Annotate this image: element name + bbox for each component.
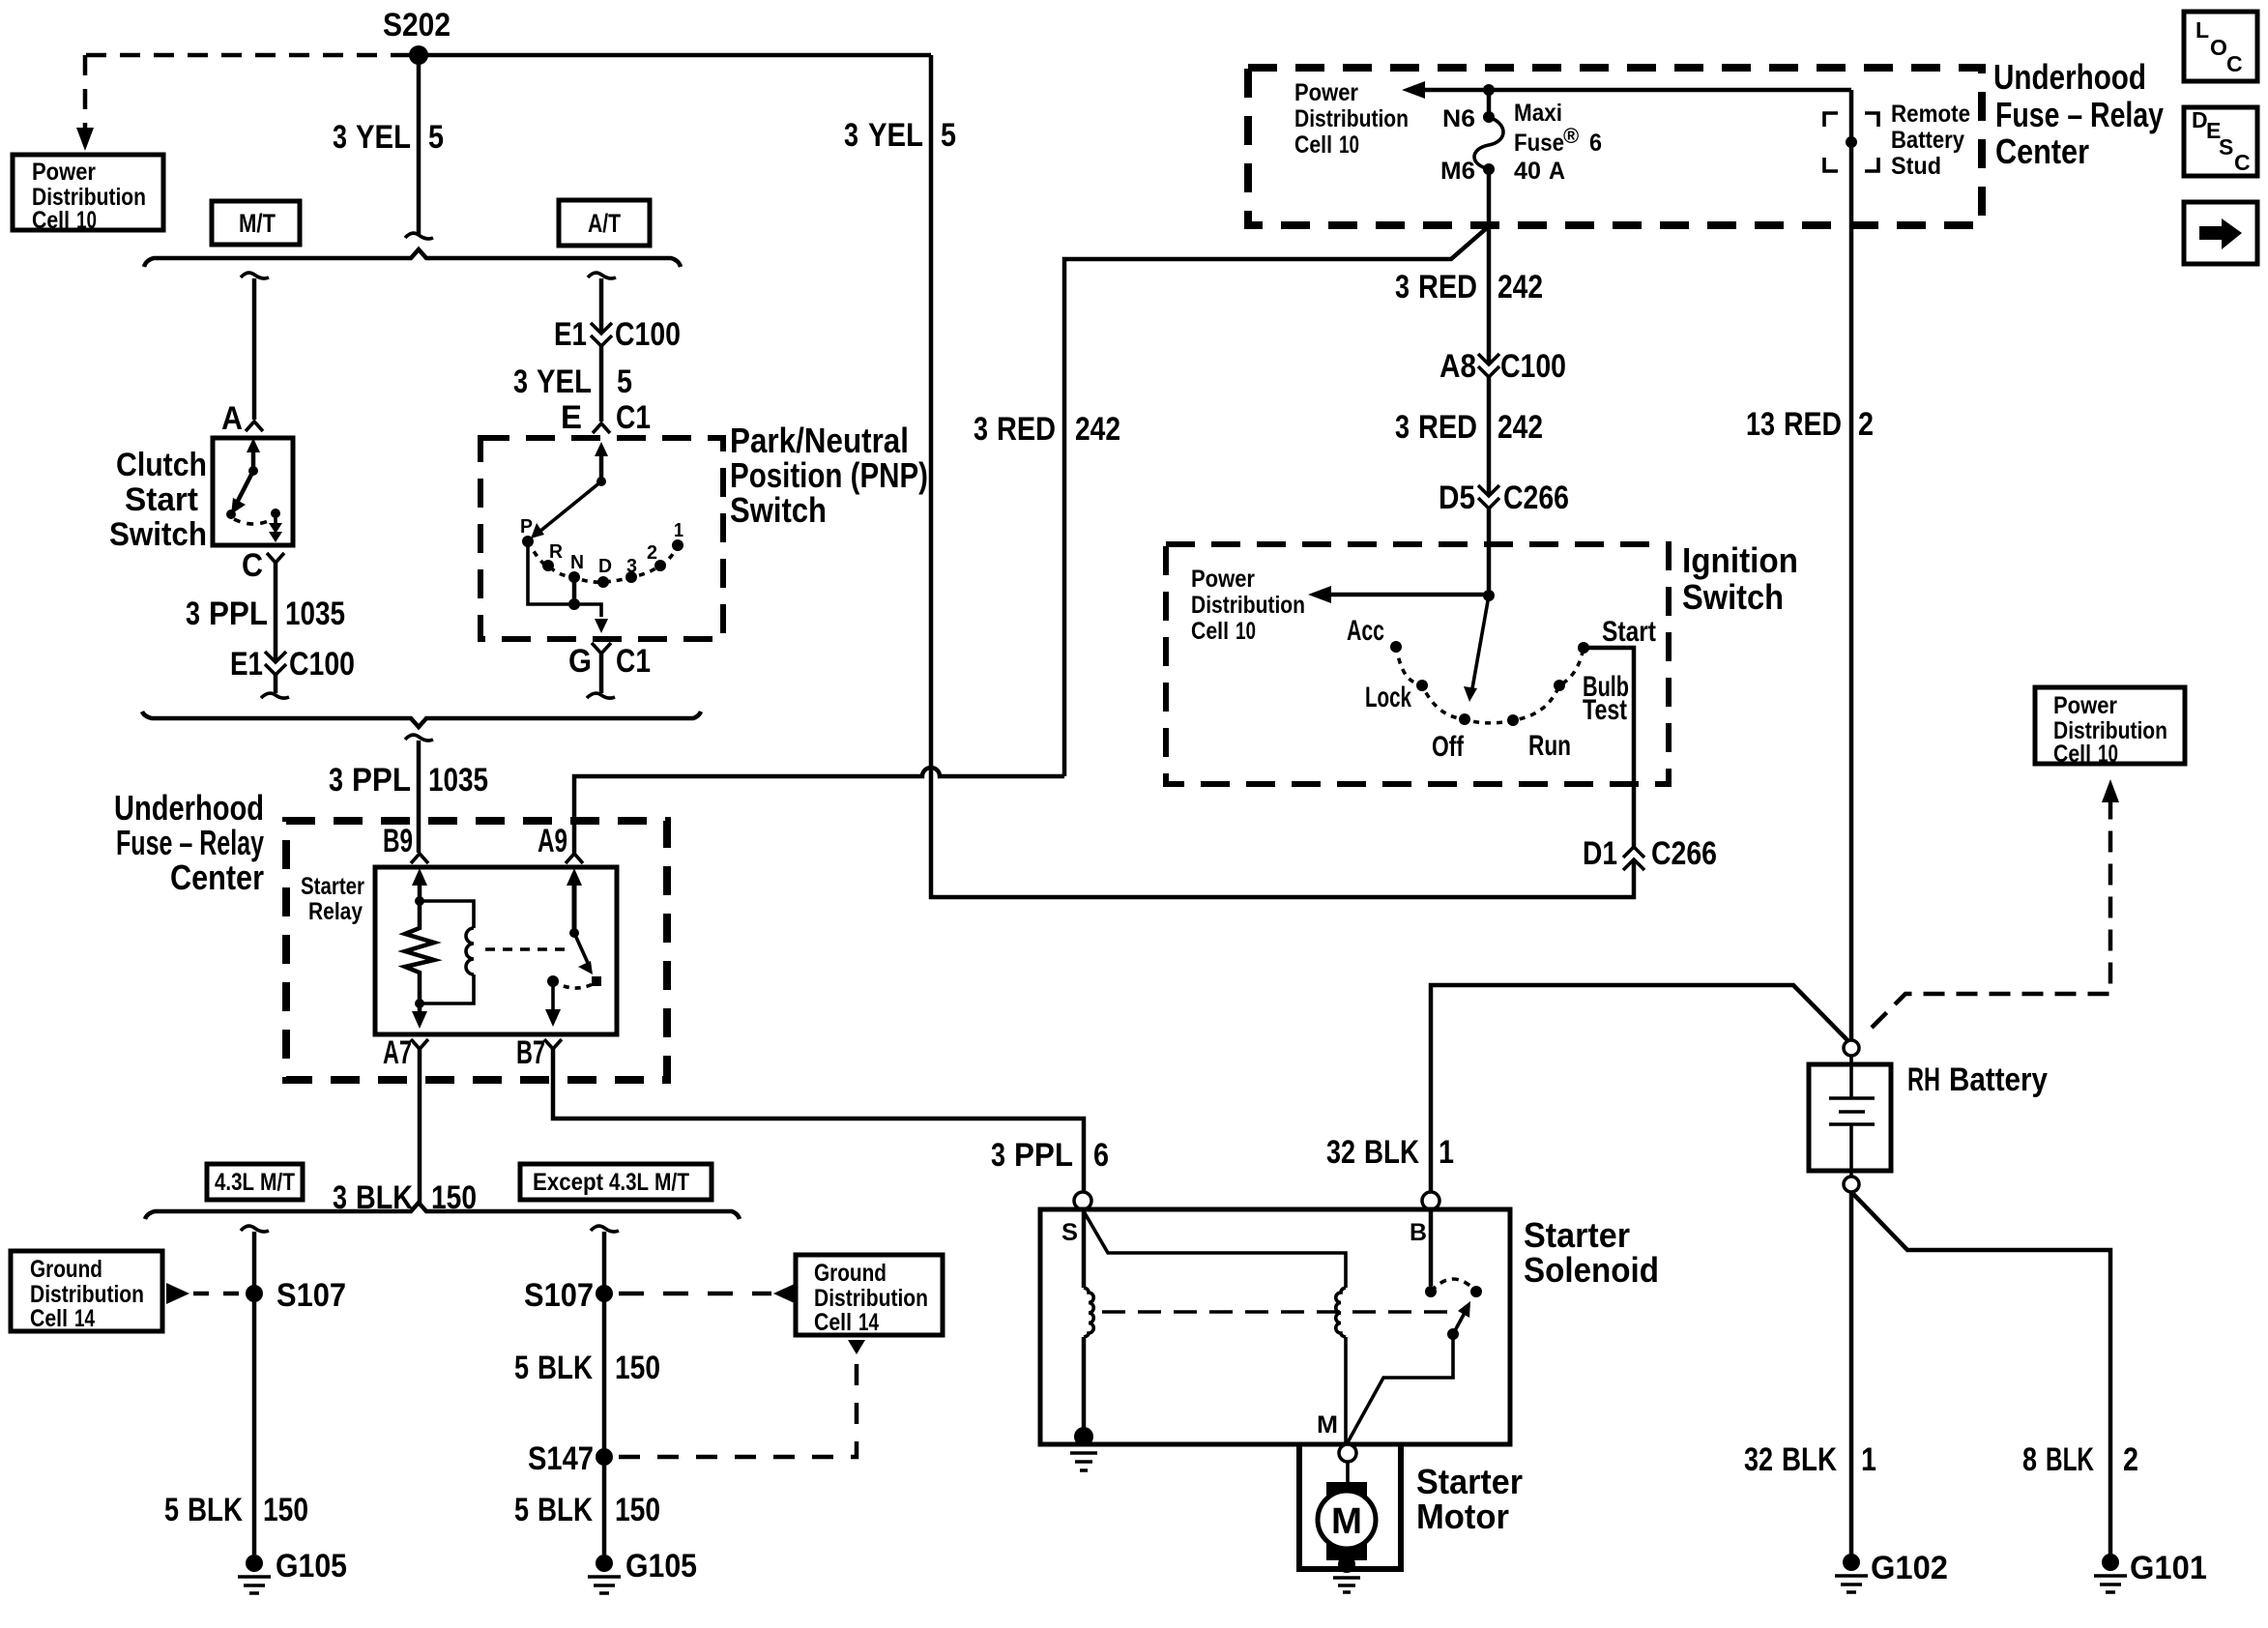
- svg-text:C100: C100: [615, 316, 681, 353]
- svg-text:3: 3: [626, 556, 637, 577]
- ground G102: [1843, 1554, 1860, 1571]
- svg-text:3: 3: [329, 762, 343, 799]
- start wire out: [1584, 648, 1634, 847]
- svg-text:4.3L: 4.3L: [609, 1169, 649, 1196]
- terminal B7: [544, 1039, 562, 1049]
- svg-text:R: R: [549, 541, 564, 563]
- svg-text:242: 242: [1075, 411, 1120, 448]
- svg-text:3: 3: [333, 119, 347, 156]
- svg-text:N6: N6: [1442, 105, 1475, 132]
- svg-text:G: G: [568, 643, 592, 680]
- svg-text:Starter: Starter: [1416, 1462, 1523, 1501]
- svg-text:3: 3: [186, 596, 200, 632]
- svg-text:BLK: BLK: [1782, 1441, 1837, 1478]
- remote battery stud: [1849, 90, 1854, 225]
- svg-text:Ground: Ground: [30, 1256, 102, 1283]
- svg-text:Off: Off: [1432, 731, 1465, 763]
- svg-text:32: 32: [1326, 1134, 1355, 1171]
- svg-text:Maxi: Maxi: [1514, 100, 1562, 127]
- svg-text:Battery: Battery: [1949, 1061, 2048, 1098]
- svg-text:S107: S107: [524, 1277, 594, 1314]
- svg-text:C266: C266: [1503, 480, 1569, 516]
- terminal A7: [411, 1039, 428, 1049]
- coil (solenoid pull-in winding): [1336, 1288, 1346, 1337]
- wire A9 up and right to 3RED junction (hop over x=963): [574, 768, 1064, 854]
- svg-text:YEL: YEL: [356, 119, 411, 156]
- svg-text:1035: 1035: [285, 596, 345, 632]
- clutch start switch box: [213, 438, 293, 545]
- ground distribution box left: [11, 1251, 162, 1331]
- svg-text:D1: D1: [1583, 835, 1617, 872]
- svg-text:A8: A8: [1439, 348, 1476, 385]
- svg-text:E1: E1: [230, 646, 263, 683]
- wire down to B9 with top hook: [405, 735, 433, 741]
- svg-text:Fuse: Fuse: [1514, 130, 1564, 157]
- wire (dashed) S202 to Power Distribution: [85, 53, 411, 58]
- battery cell plates: [1829, 1056, 1875, 1177]
- PNP switch blade and entry arrow: [599, 454, 604, 481]
- svg-text:Switch: Switch: [109, 516, 207, 553]
- svg-text:Solenoid: Solenoid: [1524, 1250, 1659, 1290]
- svg-text:Test: Test: [1583, 694, 1627, 726]
- svg-text:C: C: [2234, 150, 2251, 175]
- fuse Maxi Fuse 6 40A with N6/M6 terminals: [1487, 90, 1492, 117]
- svg-text:Power: Power: [2053, 692, 2117, 719]
- svg-text:Distribution: Distribution: [1294, 105, 1409, 132]
- svg-text:2: 2: [2123, 1441, 2138, 1478]
- svg-text:C: C: [2226, 51, 2243, 76]
- starter motor M symbol: [1318, 1491, 1376, 1549]
- svg-text:Start: Start: [1602, 616, 1656, 648]
- arrow to PD: [1320, 593, 1489, 597]
- svg-text:PPL: PPL: [352, 762, 411, 799]
- svg-text:3: 3: [844, 117, 858, 154]
- svg-text:Motor: Motor: [1416, 1497, 1509, 1536]
- wire C down: [274, 563, 278, 661]
- svg-text:Battery: Battery: [1891, 127, 1964, 154]
- terminal A chevron: [246, 422, 263, 431]
- svg-text:Start: Start: [125, 481, 198, 518]
- clutch start switch contacts and blade: [251, 447, 256, 470]
- svg-text:P: P: [520, 516, 533, 538]
- dashed box underhood fuse-relay center (top): [1248, 68, 1982, 225]
- 4.3L M/T box: [207, 1164, 303, 1200]
- svg-text:10: 10: [76, 207, 97, 234]
- svg-text:C266: C266: [1651, 835, 1717, 872]
- ground G101: [2102, 1554, 2119, 1571]
- splice S202 junction dot: [409, 45, 428, 65]
- right branch: [591, 1226, 619, 1232]
- svg-text:10: 10: [1339, 131, 1359, 159]
- wire A7 down to brace: [418, 1049, 422, 1203]
- svg-text:S: S: [1061, 1219, 1078, 1246]
- wire S terminal to pull-in winding: [1084, 1211, 1346, 1288]
- svg-text:A9: A9: [538, 823, 567, 859]
- DESC box: [2184, 107, 2257, 176]
- arrow to PD: [1413, 88, 1851, 93]
- svg-text:Distribution: Distribution: [30, 1281, 144, 1308]
- wire A/T hook + down: [588, 273, 616, 278]
- svg-text:Run: Run: [1528, 730, 1571, 762]
- starter motor enclosure: [1299, 1444, 1401, 1569]
- svg-text:YEL: YEL: [868, 117, 923, 154]
- svg-text:Power: Power: [1294, 79, 1358, 106]
- ground G105 (right): [596, 1555, 613, 1572]
- svg-text:Underhood: Underhood: [114, 788, 264, 828]
- svg-text:G101: G101: [2130, 1550, 2207, 1586]
- svg-text:E1: E1: [554, 316, 587, 353]
- svg-text:C100: C100: [1500, 348, 1566, 385]
- svg-text:Cell: Cell: [1191, 618, 1229, 645]
- svg-text:Underhood: Underhood: [1993, 57, 2146, 97]
- M terminal circle: [1339, 1444, 1356, 1462]
- svg-text:2: 2: [1858, 406, 1874, 443]
- svg-text:A: A: [221, 400, 243, 437]
- svg-text:3: 3: [1395, 409, 1410, 446]
- svg-text:Remote: Remote: [1891, 101, 1970, 128]
- solenoid switch blade: [1447, 1328, 1459, 1340]
- svg-text:8: 8: [2022, 1441, 2037, 1478]
- svg-text:3: 3: [513, 363, 528, 400]
- svg-text:Ignition: Ignition: [1682, 540, 1798, 580]
- svg-text:Ground: Ground: [814, 1260, 887, 1287]
- wire 32 BLK 1 from B to battery: [1431, 985, 1847, 1191]
- svg-text:®: ®: [1563, 124, 1579, 148]
- starter relay switch contacts and blade: [572, 880, 577, 933]
- svg-text:Cell: Cell: [1294, 131, 1332, 159]
- svg-text:Center: Center: [170, 858, 264, 897]
- wire B7 down right to solenoid S: [553, 1049, 1084, 1191]
- wire 3 RED 242 branch (left): [1064, 226, 1489, 776]
- dashed box fuse-relay center: [286, 821, 667, 1080]
- ground G105 (left): [246, 1555, 263, 1572]
- svg-text:13: 13: [1746, 406, 1775, 443]
- svg-text:Power: Power: [1191, 566, 1255, 593]
- svg-text:Starter: Starter: [301, 873, 364, 900]
- PNP switch contacts P R N D 3 2 1: [522, 536, 534, 547]
- left branch: [241, 1226, 269, 1232]
- svg-text:Cell: Cell: [32, 207, 70, 234]
- wire PNP P/N contacts to G output: [528, 541, 601, 617]
- svg-text:10: 10: [1236, 618, 1256, 645]
- svg-text:G102: G102: [1871, 1550, 1948, 1586]
- PNP switch dashed box: [480, 438, 723, 639]
- svg-text:M/T: M/T: [654, 1169, 689, 1196]
- battery down wires: [1849, 1192, 1854, 1556]
- svg-text:5: 5: [514, 1350, 529, 1386]
- svg-text:N: N: [570, 552, 584, 573]
- svg-text:RED: RED: [1784, 406, 1842, 443]
- svg-text:C1: C1: [616, 643, 651, 680]
- svg-text:14: 14: [858, 1309, 879, 1336]
- svg-text:Distribution: Distribution: [1191, 592, 1305, 619]
- svg-text:Starter: Starter: [1524, 1215, 1630, 1255]
- Power Distribution Cell 10 box (top left): [13, 155, 163, 230]
- svg-text:PPL: PPL: [209, 596, 268, 632]
- svg-text:G105: G105: [276, 1548, 347, 1584]
- svg-text:5: 5: [941, 117, 956, 154]
- ignition switch blade arrow: [1472, 596, 1489, 688]
- svg-text:BLK: BLK: [188, 1492, 243, 1528]
- brace merge (above relay): [142, 712, 701, 727]
- svg-text:150: 150: [263, 1492, 308, 1528]
- svg-text:40: 40: [1514, 158, 1541, 185]
- svg-text:RED: RED: [1418, 269, 1477, 305]
- svg-text:BLK: BLK: [2046, 1441, 2094, 1478]
- battery bottom circle: [1844, 1177, 1859, 1192]
- svg-text:Position (PNP): Position (PNP): [730, 455, 928, 495]
- svg-text:242: 242: [1497, 269, 1543, 305]
- svg-text:1: 1: [1861, 1441, 1876, 1478]
- svg-text:PPL: PPL: [1014, 1137, 1073, 1174]
- svg-text:14: 14: [74, 1305, 95, 1332]
- svg-text:O: O: [2210, 35, 2227, 60]
- svg-text:M: M: [1331, 1501, 1362, 1542]
- svg-text:L: L: [2195, 17, 2209, 43]
- svg-text:Power: Power: [32, 159, 96, 186]
- svg-text:G105: G105: [625, 1548, 697, 1584]
- svg-text:Distribution: Distribution: [814, 1285, 928, 1312]
- svg-text:B7: B7: [516, 1034, 545, 1071]
- svg-text:Center: Center: [1995, 131, 2089, 171]
- splice S107 (right): [596, 1285, 613, 1302]
- splice S107 (left): [246, 1285, 263, 1302]
- Except 4.3L M/T box: [520, 1164, 712, 1200]
- wire 3 RED down (x=1540): [1487, 226, 1492, 594]
- wire B terminal to solenoid contact: [1429, 1209, 1434, 1286]
- svg-text:D5: D5: [1439, 480, 1475, 516]
- svg-text:RED: RED: [1418, 409, 1477, 446]
- svg-text:YEL: YEL: [537, 363, 592, 400]
- wire S202 horizontal to right: [419, 53, 931, 58]
- dashed mechanical link (relay): [485, 947, 567, 951]
- ground distribution box right: [796, 1255, 943, 1335]
- svg-text:5: 5: [514, 1492, 529, 1528]
- svg-text:RED: RED: [997, 411, 1056, 448]
- svg-text:BLK: BLK: [1364, 1134, 1419, 1171]
- svg-text:1: 1: [674, 520, 683, 541]
- dashed mechanical link (solenoid): [1102, 1310, 1458, 1314]
- svg-text:C100: C100: [289, 646, 355, 683]
- wire 13 RED 2 down to battery: [1849, 225, 1854, 1039]
- svg-text:S107: S107: [276, 1277, 346, 1314]
- motor wire: [1346, 1462, 1350, 1493]
- svg-text:S147: S147: [528, 1440, 594, 1477]
- svg-text:Fuse – Relay: Fuse – Relay: [116, 823, 264, 862]
- LOC box: [2184, 12, 2257, 81]
- svg-text:A/T: A/T: [588, 209, 621, 238]
- svg-text:B9: B9: [383, 823, 413, 859]
- svg-text:B: B: [1410, 1219, 1427, 1246]
- dashed to PD box: [1872, 795, 2110, 1028]
- svg-text:Switch: Switch: [1682, 577, 1784, 617]
- svg-text:M/T: M/T: [239, 209, 276, 238]
- coil (starter relay winding): [420, 901, 474, 1003]
- svg-text:Cell: Cell: [30, 1305, 68, 1332]
- ground (solenoid hold-in winding): [1074, 1427, 1093, 1446]
- svg-text:RH: RH: [1907, 1061, 1940, 1098]
- svg-text:C: C: [242, 547, 263, 584]
- svg-text:BLK: BLK: [538, 1350, 593, 1386]
- svg-text:Except: Except: [533, 1169, 604, 1196]
- svg-text:Relay: Relay: [308, 898, 363, 925]
- svg-text:S202: S202: [383, 7, 451, 44]
- coil (solenoid hold-in winding): [1082, 1209, 1087, 1288]
- svg-text:D: D: [598, 556, 612, 577]
- arrow + dashes: [166, 1283, 189, 1304]
- svg-text:Park/Neutral: Park/Neutral: [730, 421, 909, 460]
- svg-text:2: 2: [647, 542, 657, 564]
- svg-text:Acc: Acc: [1347, 615, 1384, 647]
- splice S147: [596, 1448, 613, 1466]
- brace split (bottom): [145, 1203, 740, 1219]
- svg-text:5: 5: [428, 119, 444, 156]
- svg-text:150: 150: [615, 1350, 660, 1386]
- svg-text:Stud: Stud: [1891, 153, 1941, 180]
- svg-text:3: 3: [1395, 269, 1410, 305]
- svg-text:242: 242: [1497, 409, 1543, 446]
- battery top circle: [1844, 1040, 1859, 1056]
- M/T box: [212, 201, 300, 245]
- svg-text:S: S: [2219, 134, 2233, 160]
- ignition switch contacts Acc Lock Off Run Bulb-Test Start: [1390, 641, 1402, 653]
- battery box: [1809, 1064, 1891, 1171]
- ground (starter motor): [1338, 1555, 1355, 1573]
- svg-text:3: 3: [974, 411, 988, 448]
- relay box: [375, 867, 617, 1034]
- PD box (right): [2035, 687, 2185, 764]
- svg-text:Clutch: Clutch: [116, 447, 207, 483]
- svg-text:M/T: M/T: [260, 1169, 295, 1196]
- B terminal circle: [1422, 1192, 1439, 1209]
- wire 3 YEL 5 stub from S202 down: [417, 55, 422, 234]
- svg-text:10: 10: [2098, 741, 2118, 768]
- svg-text:5: 5: [617, 363, 632, 400]
- svg-text:Switch: Switch: [730, 490, 827, 530]
- svg-text:1: 1: [1439, 1134, 1454, 1171]
- svg-text:150: 150: [615, 1492, 660, 1528]
- A/T box: [559, 200, 650, 246]
- wire below G C1 + hook: [599, 654, 604, 693]
- svg-text:C1: C1: [616, 399, 651, 436]
- wire M/T branch: [241, 273, 269, 278]
- svg-text:A: A: [1549, 158, 1565, 185]
- svg-text:M: M: [1317, 1411, 1338, 1439]
- svg-text:1035: 1035: [428, 762, 488, 799]
- svg-text:3: 3: [991, 1137, 1005, 1174]
- svg-text:4.3L: 4.3L: [215, 1169, 254, 1196]
- brace split (top): [144, 249, 681, 267]
- svg-text:5: 5: [164, 1492, 179, 1528]
- svg-text:Cell: Cell: [814, 1309, 852, 1336]
- wire (dashed) with arrow into Power Distribution box: [83, 55, 88, 128]
- arrow box: [2184, 202, 2257, 264]
- svg-text:Cell: Cell: [2053, 741, 2091, 768]
- svg-text:M6: M6: [1440, 158, 1475, 185]
- svg-text:A7: A7: [383, 1034, 412, 1071]
- svg-text:Fuse – Relay: Fuse – Relay: [1995, 95, 2164, 134]
- svg-text:E: E: [561, 399, 582, 436]
- wire below E1 C100 with end hook: [274, 675, 278, 693]
- resistor (starter relay winding shunt): [418, 882, 422, 899]
- svg-text:BLK: BLK: [538, 1492, 593, 1528]
- solenoid box: [1040, 1209, 1510, 1444]
- svg-text:6: 6: [1093, 1137, 1109, 1174]
- svg-text:6: 6: [1589, 130, 1602, 157]
- svg-text:32: 32: [1744, 1441, 1773, 1478]
- motor brushes: [1326, 1482, 1367, 1502]
- svg-text:Lock: Lock: [1365, 682, 1411, 713]
- S terminal circle: [1074, 1192, 1091, 1209]
- wire continue: [599, 346, 604, 422]
